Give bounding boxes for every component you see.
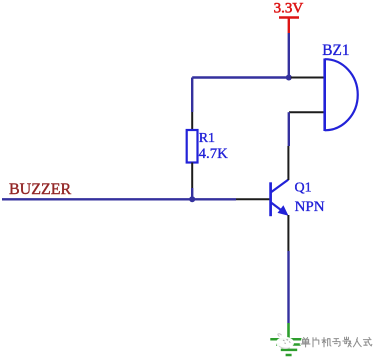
transistor Q1 emitter pin xyxy=(287,215,289,251)
watermark logo blob xyxy=(276,334,294,349)
wire power stub red xyxy=(288,18,290,34)
svg-text:3.3V: 3.3V xyxy=(274,1,304,17)
power bar symbol 3.3V xyxy=(279,16,299,19)
transistor Q1 base bar xyxy=(269,182,272,216)
svg-text:4.7K: 4.7K xyxy=(199,146,228,162)
svg-text:BUZZER: BUZZER xyxy=(9,181,72,198)
wire emitter to ground xyxy=(287,251,289,323)
buzzer BZ1 top pin xyxy=(291,77,324,79)
svg-text:NPN: NPN xyxy=(295,199,325,215)
transistor Q1 collector stroke xyxy=(271,180,288,193)
watermark text strokes xyxy=(301,337,372,347)
wire top horizontal xyxy=(192,76,289,78)
svg-text:BZ1: BZ1 xyxy=(322,42,349,59)
node junction on BUZZER net xyxy=(189,196,195,202)
transistor Q1 base pin xyxy=(236,198,270,200)
buzzer BZ1 bottom pin xyxy=(289,111,324,113)
watermark text halo xyxy=(301,337,372,347)
transistor Q1 collector pin xyxy=(287,146,289,180)
transistor Q1 emitter arrowhead xyxy=(278,205,289,216)
svg-text:Q1: Q1 xyxy=(295,181,312,196)
wire down to resistor xyxy=(191,78,193,113)
transistor Q1 emitter stroke xyxy=(271,203,283,212)
resistor R1 top pin xyxy=(191,112,193,130)
resistor R1 bottom pin xyxy=(191,163,193,189)
wire resistor to buzzer net xyxy=(191,188,193,199)
svg-text:R1: R1 xyxy=(199,131,215,146)
wire BUZZER net horizontal xyxy=(2,198,236,200)
ground stub xyxy=(287,323,290,340)
wire power vertical blue xyxy=(288,33,290,78)
node junction at power/buzzer xyxy=(286,75,292,81)
resistor R1 body xyxy=(187,130,198,163)
ground bar 1 xyxy=(270,338,306,341)
ground bar 4 xyxy=(286,354,292,357)
wire buzzer to collector xyxy=(288,112,290,146)
buzzer BZ1 dome xyxy=(325,59,358,130)
buzzer BZ1 flat bar xyxy=(323,59,326,132)
ground bar 3 xyxy=(281,349,297,352)
ground bar 2 xyxy=(276,343,301,346)
